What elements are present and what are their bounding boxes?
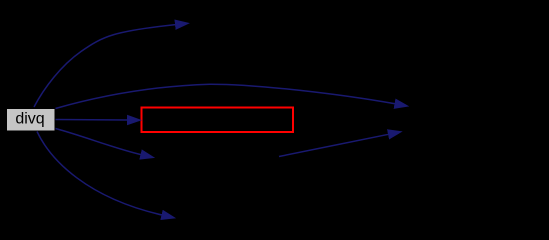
- edge lower node -> right node 2: [279, 134, 389, 156]
- node (red, truncated): [142, 108, 294, 133]
- svg-text:divq: divq: [15, 111, 44, 128]
- edge divq -> top node: [34, 25, 176, 107]
- edge divq -> bottom node: [37, 132, 162, 216]
- edge divq -> lower node: [56, 129, 142, 155]
- edge divq -> right node 1 (long arc): [56, 84, 396, 108]
- edge divq -> red node: [56, 119, 128, 122]
- node divq: [7, 109, 56, 132]
